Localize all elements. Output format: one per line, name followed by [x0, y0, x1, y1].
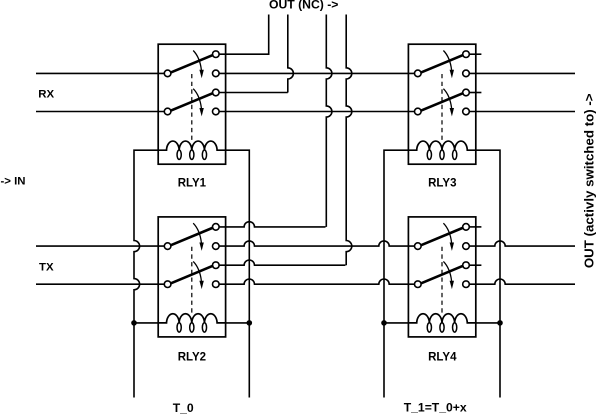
RLY4 pole 1 switch blade — [421, 228, 464, 246]
RLY3 pole 2 actuation arrow — [443, 89, 451, 109]
wire RLY3 coil left to T_1 bus — [384, 150, 408, 397]
svg-text:RX: RX — [38, 88, 54, 100]
RLY4 pole 1 NC throw contact — [463, 224, 470, 231]
wire RLY1 coil right to T_0 bus — [226, 150, 250, 397]
RLY3 pole 1 switch blade — [421, 55, 464, 73]
stub RLY4 pole2 NC — [469, 264, 481, 266]
RLY4 pole 2 NO throw contact — [463, 281, 470, 288]
svg-text:T_0: T_0 — [173, 401, 194, 415]
RLY2 pole 2 NC throw contact — [213, 262, 220, 269]
wire RLY1 pole2 NC to OUT(NC) line 2 — [219, 92, 288, 94]
RLY4 mechanical linkage (dashed) — [441, 247, 443, 314]
wire TX lower input to RLY2 pole2 common — [36, 283, 164, 285]
RLY1 pole 1 switch blade — [171, 55, 214, 73]
RLY3 pole 2 NC throw contact — [463, 89, 470, 96]
wire OUT(NC) line 2 vertical (hops RX bus) — [288, 15, 294, 93]
wire RLY2 coil left to T_0 bus — [134, 322, 158, 324]
wire OUT(NC) line 1 to RLY1 pole1 NC — [219, 15, 269, 55]
junction T_0 bus left — [131, 320, 137, 326]
RLY2 pole 1 actuation arrow — [193, 223, 201, 243]
RLY1 pole 2 NO throw contact — [213, 108, 220, 115]
RLY4 pole 2 actuation arrow — [443, 261, 451, 281]
junction T_0 bus right — [247, 320, 253, 326]
RLY3 mechanical linkage (dashed) — [441, 74, 443, 141]
RLY2 coil — [158, 314, 225, 323]
svg-text:-> IN: -> IN — [1, 175, 26, 187]
stub RLY3 pole2 NC — [469, 92, 481, 94]
RLY1 pole 2 switch blade — [171, 93, 214, 111]
svg-text:T_1=T_0+x: T_1=T_0+x — [404, 400, 467, 414]
wire RLY2 pole2 NC to OUT(NC) line 4 (hops coil bus) — [219, 260, 345, 265]
wire OUT(NC) line 4 vertical (hops three buses) — [346, 15, 352, 266]
RLY4 pole 2 switch blade — [421, 266, 464, 284]
relay RLY1 — [158, 44, 225, 164]
RLY2 pole 2 actuation arrow — [193, 261, 201, 281]
RLY2 mechanical linkage (dashed) — [191, 247, 193, 314]
relay RLY2 — [158, 217, 225, 337]
RLY2 pole 2 switch blade — [171, 266, 214, 284]
RLY4 pole 1 common contact — [415, 243, 422, 250]
junction T_1 bus right — [497, 320, 503, 326]
RLY4 coil — [408, 314, 475, 323]
RLY2 pole 1 common contact — [164, 243, 171, 250]
svg-text:RLY1: RLY1 — [178, 177, 207, 189]
wire RLY4 coil left to T_1 bus — [384, 322, 408, 324]
RLY4 pole 2 NC throw contact — [463, 262, 470, 269]
stub RLY3 pole1 NC — [469, 53, 481, 55]
RLY2 pole 1 switch blade — [171, 228, 214, 246]
svg-text:TX: TX — [39, 262, 54, 274]
wire RX upper input to RLY1 pole1 common — [36, 72, 164, 74]
wire RLY3 pole2 NO to switched output — [469, 111, 575, 113]
wire RLY3 pole1 NO to switched output — [469, 72, 575, 74]
RLY2 pole 1 NO throw contact — [213, 243, 220, 250]
RLY1 pole 2 NC throw contact — [213, 89, 220, 96]
wire OUT(NC) line 3 vertical (hops two buses) — [326, 15, 332, 227]
wire RLY4 coil right to T_1 bus — [476, 322, 500, 324]
wire RLY2 pole1 NO to RLY4 pole1 common (hops coil buses) — [219, 241, 414, 246]
RLY3 pole 2 common contact — [415, 108, 422, 115]
wire RX lower input to RLY1 pole2 common — [36, 111, 164, 113]
wire RLY2 pole2 NO to RLY4 pole2 common (hops coil buses) — [219, 279, 414, 284]
junction T_1 bus left — [381, 320, 387, 326]
RLY4 body/box — [408, 217, 475, 337]
RLY4 pole 2 common contact — [415, 281, 422, 288]
wire RLY1 coil left to T_0 bus (hops TX wires) — [134, 150, 158, 397]
RLY4 pole 1 actuation arrow — [443, 223, 451, 243]
wire RLY4 pole1 NO to switched output (hops coil bus) — [469, 241, 575, 246]
stub RLY4 pole1 NC — [469, 226, 481, 228]
RLY1 pole 1 NO throw contact — [213, 70, 220, 77]
RLY3 pole 1 actuation arrow — [443, 51, 451, 71]
RLY1 pole 2 common contact — [164, 108, 171, 115]
RLY2 pole 1 NC throw contact — [213, 224, 220, 231]
RLY1 mechanical linkage (dashed) — [191, 74, 193, 141]
wire TX upper input to RLY2 pole1 common — [36, 245, 164, 247]
wire RLY3 coil right to T_1 bus — [476, 150, 500, 397]
RLY1 pole 1 common contact — [164, 70, 171, 77]
svg-text:OUT (activly switched to) ->: OUT (activly switched to) -> — [582, 93, 597, 268]
svg-text:RLY3: RLY3 — [428, 177, 456, 189]
RLY3 pole 1 common contact — [415, 70, 422, 77]
RLY3 coil — [408, 141, 475, 150]
svg-text:OUT (NC) ->: OUT (NC) -> — [269, 0, 338, 12]
RLY1 pole 1 actuation arrow — [193, 51, 201, 71]
RLY2 pole 2 common contact — [164, 281, 171, 288]
RLY2 pole 2 NO throw contact — [213, 281, 220, 288]
RLY1 coil — [158, 141, 225, 150]
wire RLY4 pole2 NO to switched output (hops coil bus) — [469, 279, 575, 284]
RLY3 pole 1 NO throw contact — [463, 70, 470, 77]
RLY4 pole 1 NO throw contact — [463, 243, 470, 250]
RLY1 pole 2 actuation arrow — [193, 89, 201, 109]
wire RLY2 pole1 NC to OUT(NC) line 3 (hops coil bus) — [219, 222, 325, 227]
svg-text:RLY2: RLY2 — [178, 351, 206, 363]
wire RLY2 coil right to T_0 bus — [226, 322, 250, 324]
RLY1 pole 1 NC throw contact — [213, 51, 220, 58]
wire RLY1 pole1 NO to RLY3 pole1 common — [219, 72, 414, 74]
svg-text:RLY4: RLY4 — [428, 351, 457, 363]
RLY3 pole 2 NO throw contact — [463, 108, 470, 115]
RLY3 pole 2 switch blade — [421, 93, 464, 111]
wire RLY1 pole2 NO to RLY3 pole2 common — [219, 111, 414, 113]
RLY2 body/box — [158, 217, 225, 337]
relay RLY3 — [408, 44, 475, 164]
relay RLY4 — [408, 217, 475, 337]
RLY3 body/box — [408, 44, 475, 164]
RLY3 pole 1 NC throw contact — [463, 51, 470, 58]
RLY1 body/box — [158, 44, 225, 164]
